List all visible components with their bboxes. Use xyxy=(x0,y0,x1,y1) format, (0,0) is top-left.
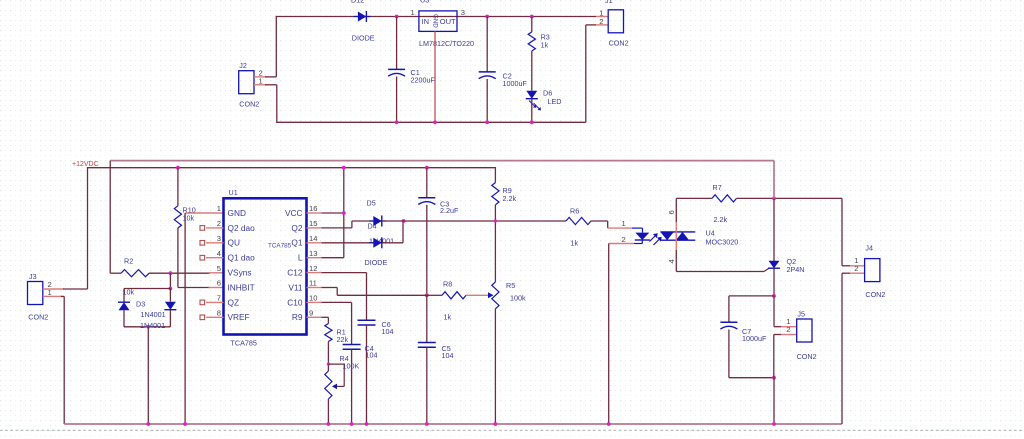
svg-text:1N4001: 1N4001 xyxy=(141,310,166,319)
node diode output xyxy=(402,219,406,223)
wire R6 to opto pin1 xyxy=(591,220,608,222)
svg-text:1000uF: 1000uF xyxy=(742,334,767,343)
capacitor C1 xyxy=(396,17,398,70)
wire R5 to ground rail xyxy=(494,309,496,424)
node regulator GND bottom xyxy=(433,120,437,124)
wire sync rail down to Q2 xyxy=(773,161,775,199)
wire C3 down to V11 node xyxy=(426,205,428,295)
svg-text:5: 5 xyxy=(217,264,221,273)
svg-text:Q2: Q2 xyxy=(291,223,302,233)
svg-text:GND: GND xyxy=(432,14,439,28)
svg-text:4: 4 xyxy=(667,259,676,263)
svg-text:VCC: VCC xyxy=(285,208,303,218)
wire R10 to INHBIT pin6 xyxy=(177,228,179,288)
svg-text:1N4001: 1N4001 xyxy=(140,321,165,330)
svg-text:16: 16 xyxy=(309,204,317,213)
connector J4 xyxy=(865,259,880,282)
node C6 ground xyxy=(365,422,369,426)
potentiometer R5 100k xyxy=(492,282,499,309)
resistor R9 2.2k xyxy=(492,183,499,205)
wire opto pin6 to R7 xyxy=(676,197,712,199)
svg-text:15: 15 xyxy=(309,219,317,228)
wire R2 vertical from sync rail xyxy=(109,161,111,274)
connector J3 xyxy=(28,282,43,305)
sheet border dashed xyxy=(0,429,1024,431)
node R7/Q2 xyxy=(772,197,776,201)
svg-text:GND: GND xyxy=(228,208,246,218)
node R3 top xyxy=(530,15,534,19)
svg-text:C10: C10 xyxy=(287,297,303,307)
wire J1 pin2 vertical xyxy=(585,25,587,122)
diode D4 xyxy=(373,238,382,248)
wire Q2 node to J5 pin1 xyxy=(773,296,775,327)
svg-text:2: 2 xyxy=(599,17,603,26)
potentiometer R4 100K xyxy=(325,371,332,399)
capacitor C7 1000uF xyxy=(728,296,730,322)
wire VSync node down to D3 xyxy=(169,273,171,288)
svg-text:Q1 dao: Q1 dao xyxy=(228,253,256,263)
svg-text:CON2: CON2 xyxy=(865,290,885,299)
diode D3 right 1N4001 xyxy=(169,289,171,302)
svg-text:6: 6 xyxy=(217,279,221,288)
resistor R1 22k xyxy=(325,324,332,342)
svg-text:U1: U1 xyxy=(229,188,238,197)
wire +12VDC dark rail xyxy=(88,167,496,169)
wire V11 pin11 to R8 xyxy=(322,287,338,289)
resistor R6 1k xyxy=(566,217,591,224)
svg-text:7: 7 xyxy=(217,294,221,303)
capacitor C3 2.2uF xyxy=(426,168,428,198)
capacitor C4 104 xyxy=(343,344,361,346)
wire output node to R6 xyxy=(382,220,566,222)
svg-text:2P4N: 2P4N xyxy=(787,265,805,274)
svg-text:100K: 100K xyxy=(343,362,360,371)
svg-text:1k: 1k xyxy=(541,41,549,50)
node C3/V11 xyxy=(425,293,429,297)
node opto pin2 ground xyxy=(607,422,611,426)
wire R1 to R4 xyxy=(327,342,329,372)
node Q2 bottom xyxy=(772,294,776,298)
svg-text:R7: R7 xyxy=(713,183,722,192)
node R4 ground xyxy=(327,422,331,426)
wire D3 bottom horizontal xyxy=(124,326,170,328)
wire Q2 pin15 to diode D5 xyxy=(322,227,352,229)
svg-text:100k: 100k xyxy=(510,294,526,303)
svg-text:R6: R6 xyxy=(570,207,579,216)
svg-text:R9: R9 xyxy=(292,312,303,322)
node GND pin ground xyxy=(183,422,187,426)
svg-text:22k: 22k xyxy=(337,335,349,344)
svg-text:J4: J4 xyxy=(865,244,873,253)
node R9 output xyxy=(494,219,497,222)
svg-text:U3: U3 xyxy=(420,0,429,5)
wire left vertical xyxy=(275,16,277,77)
wire top rail xyxy=(276,16,596,18)
node C2 top xyxy=(485,15,489,19)
svg-text:2: 2 xyxy=(786,325,790,334)
svg-text:2: 2 xyxy=(854,264,858,273)
svg-text:1k: 1k xyxy=(571,239,579,248)
svg-text:J3: J3 xyxy=(29,272,37,281)
wire LED to bottom rail xyxy=(531,99,533,123)
svg-text:14: 14 xyxy=(309,234,317,243)
svg-text:8: 8 xyxy=(217,309,221,318)
svg-text:CON2: CON2 xyxy=(609,39,629,48)
wire C7 branch bottom xyxy=(729,377,774,379)
wire D4 up to output node xyxy=(382,242,403,244)
svg-text:6: 6 xyxy=(667,210,676,214)
svg-text:V11: V11 xyxy=(288,282,303,292)
wire J4 pin1 vertical xyxy=(841,198,843,265)
svg-text:3: 3 xyxy=(217,234,221,243)
svg-text:1000uF: 1000uF xyxy=(503,79,528,88)
svg-text:Q2 dao: Q2 dao xyxy=(228,223,256,233)
resistor R10 10k xyxy=(177,168,179,206)
wire C10 pin10 down xyxy=(322,301,352,303)
svg-text:1: 1 xyxy=(217,204,221,213)
wire C7 branch top xyxy=(729,295,774,297)
wire J2 pin2 to top rail xyxy=(254,76,266,78)
svg-text:R2: R2 xyxy=(124,257,133,266)
diode D3 left 1N4001 xyxy=(123,289,125,303)
node C2 bottom xyxy=(485,120,489,124)
svg-text:L: L xyxy=(298,253,303,263)
svg-text:2: 2 xyxy=(217,219,221,228)
node C3 rail xyxy=(425,166,429,170)
svg-text:1k: 1k xyxy=(444,313,452,322)
node C1 top xyxy=(395,15,399,19)
svg-text:TCA785: TCA785 xyxy=(231,339,257,348)
svg-text:LED: LED xyxy=(548,97,562,106)
wire R2 to VSync pin5 xyxy=(149,272,210,274)
resistor R7 2.2k xyxy=(712,195,737,202)
node C4 ground xyxy=(350,422,354,426)
svg-text:1: 1 xyxy=(622,219,626,228)
svg-text:3: 3 xyxy=(461,8,465,17)
wire D3 to ground rail xyxy=(147,327,149,424)
wire sync light rail xyxy=(110,160,774,162)
wire R9 to output line xyxy=(494,205,496,282)
svg-text:IN: IN xyxy=(422,17,430,26)
svg-text:QU: QU xyxy=(228,238,240,248)
svg-text:9: 9 xyxy=(309,309,313,318)
svg-text:VSyns: VSyns xyxy=(228,268,252,278)
node D3 ground xyxy=(146,422,150,426)
svg-text:10: 10 xyxy=(309,294,317,303)
wire bottom rail top-section xyxy=(276,121,586,123)
svg-text:D12: D12 xyxy=(351,0,364,5)
svg-text:2.2k: 2.2k xyxy=(714,215,728,224)
wire R4 wiper loop xyxy=(328,364,344,386)
node C7 ground xyxy=(772,422,776,426)
wire J5 pin2 down xyxy=(781,334,797,336)
wire GND pin1 to ground rail xyxy=(185,212,223,214)
svg-text:2.2k: 2.2k xyxy=(503,194,517,203)
svg-text:MOC3020: MOC3020 xyxy=(706,237,739,246)
svg-text:J2: J2 xyxy=(239,61,247,70)
svg-text:10k: 10k xyxy=(183,214,195,223)
svg-text:2: 2 xyxy=(622,235,626,244)
wire Q2 anode xyxy=(773,198,775,261)
svg-text:104: 104 xyxy=(442,351,454,360)
node C7 bottom xyxy=(772,376,776,380)
svg-text:C12: C12 xyxy=(287,268,303,278)
wire opto pin4 to Q2 gate xyxy=(676,271,764,273)
svg-text:2200uF: 2200uF xyxy=(411,76,436,85)
svg-text:LM7812C/TO220: LM7812C/TO220 xyxy=(419,39,474,48)
svg-text:2.2uF: 2.2uF xyxy=(440,206,459,215)
wire VCC pin16 to +12VDC rail xyxy=(322,212,344,214)
svg-text:J1: J1 xyxy=(605,0,613,5)
opto light arrows xyxy=(650,235,657,242)
wire R4 to ground rail xyxy=(327,399,329,424)
svg-text:CON2: CON2 xyxy=(239,100,259,109)
wire R9 pin9 to R1 xyxy=(322,316,329,318)
node C1 bottom xyxy=(395,120,399,124)
wire Q1 pin14 to diode D4 xyxy=(322,242,374,244)
capacitor C5 104 xyxy=(426,295,428,342)
svg-text:Q1: Q1 xyxy=(291,238,302,248)
svg-text:TCA785: TCA785 xyxy=(268,243,292,250)
opto triac xyxy=(660,231,695,233)
capacitor C6 104 xyxy=(358,319,376,321)
wire L pin13 to VCC column xyxy=(322,257,344,259)
wire opto pin2 to ground xyxy=(609,243,634,245)
connector J5 xyxy=(797,319,812,342)
svg-text:13: 13 xyxy=(309,249,317,258)
svg-text:4: 4 xyxy=(217,249,221,258)
wire R7 to Q2 and J4 xyxy=(737,197,843,199)
wire J3 pin1 to ground rail xyxy=(43,295,62,297)
svg-text:R5: R5 xyxy=(506,281,515,290)
svg-text:1: 1 xyxy=(411,8,415,17)
svg-text:VREF: VREF xyxy=(228,312,250,322)
connector J2 xyxy=(239,71,254,94)
node VCC rail xyxy=(342,166,346,170)
svg-text:CON2: CON2 xyxy=(797,352,817,361)
node VSync junction xyxy=(169,271,173,275)
wire ground bottom rail xyxy=(64,423,842,425)
svg-text:11: 11 xyxy=(309,279,317,288)
wire D3 top horizontal xyxy=(124,288,170,290)
resistor R3 1k xyxy=(531,17,533,32)
svg-text:OUT: OUT xyxy=(440,17,456,26)
resistor R8 1k xyxy=(442,292,466,299)
svg-text:104: 104 xyxy=(366,350,378,359)
wire R8 to R5 wiper arrow xyxy=(466,294,489,296)
svg-text:INHBIT: INHBIT xyxy=(228,282,255,292)
node D3 top xyxy=(169,287,173,291)
resistor R2 10k xyxy=(110,272,121,274)
svg-text:DIODE: DIODE xyxy=(352,33,375,42)
svg-text:104: 104 xyxy=(382,327,394,336)
svg-text:QZ: QZ xyxy=(228,297,240,307)
optocoupler U4 MOC3020 LED xyxy=(632,227,643,229)
opto right vertical pin6 pin4 xyxy=(675,198,677,222)
svg-text:12: 12 xyxy=(309,264,317,273)
wire C7 node to ground rail xyxy=(773,378,775,424)
svg-text:+12VDC: +12VDC xyxy=(72,161,99,168)
wire C12 pin12 down xyxy=(322,272,367,274)
node R10 top xyxy=(176,166,180,170)
wire J4 pin2 to ground rail xyxy=(850,272,865,274)
wire R3 to LED xyxy=(531,51,533,91)
wire regulator GND pin to ground xyxy=(434,31,436,122)
svg-text:DIODE: DIODE xyxy=(365,258,388,267)
svg-text:J5: J5 xyxy=(797,310,805,319)
svg-text:R8: R8 xyxy=(443,280,452,289)
svg-text:D5: D5 xyxy=(367,199,376,208)
svg-text:D3: D3 xyxy=(136,299,145,308)
capacitor C2 xyxy=(486,17,488,72)
node VCC pin16 xyxy=(342,211,346,215)
svg-text:CON2: CON2 xyxy=(28,313,48,322)
node R5 ground xyxy=(494,422,498,426)
LED D6 xyxy=(526,91,537,99)
node C5 ground xyxy=(425,422,429,426)
triac Q2 2P4N xyxy=(769,261,780,268)
node R1/R4 junction xyxy=(327,363,330,366)
node D6 bottom xyxy=(530,120,534,124)
node D3 bottom tap xyxy=(146,325,150,329)
wire J2 pin1 to bottom rail xyxy=(254,84,266,86)
wire Q2 cathode xyxy=(773,268,775,296)
wire J3 pin2 to +12VDC rail xyxy=(43,288,64,290)
node R9 rail corner xyxy=(494,167,496,183)
